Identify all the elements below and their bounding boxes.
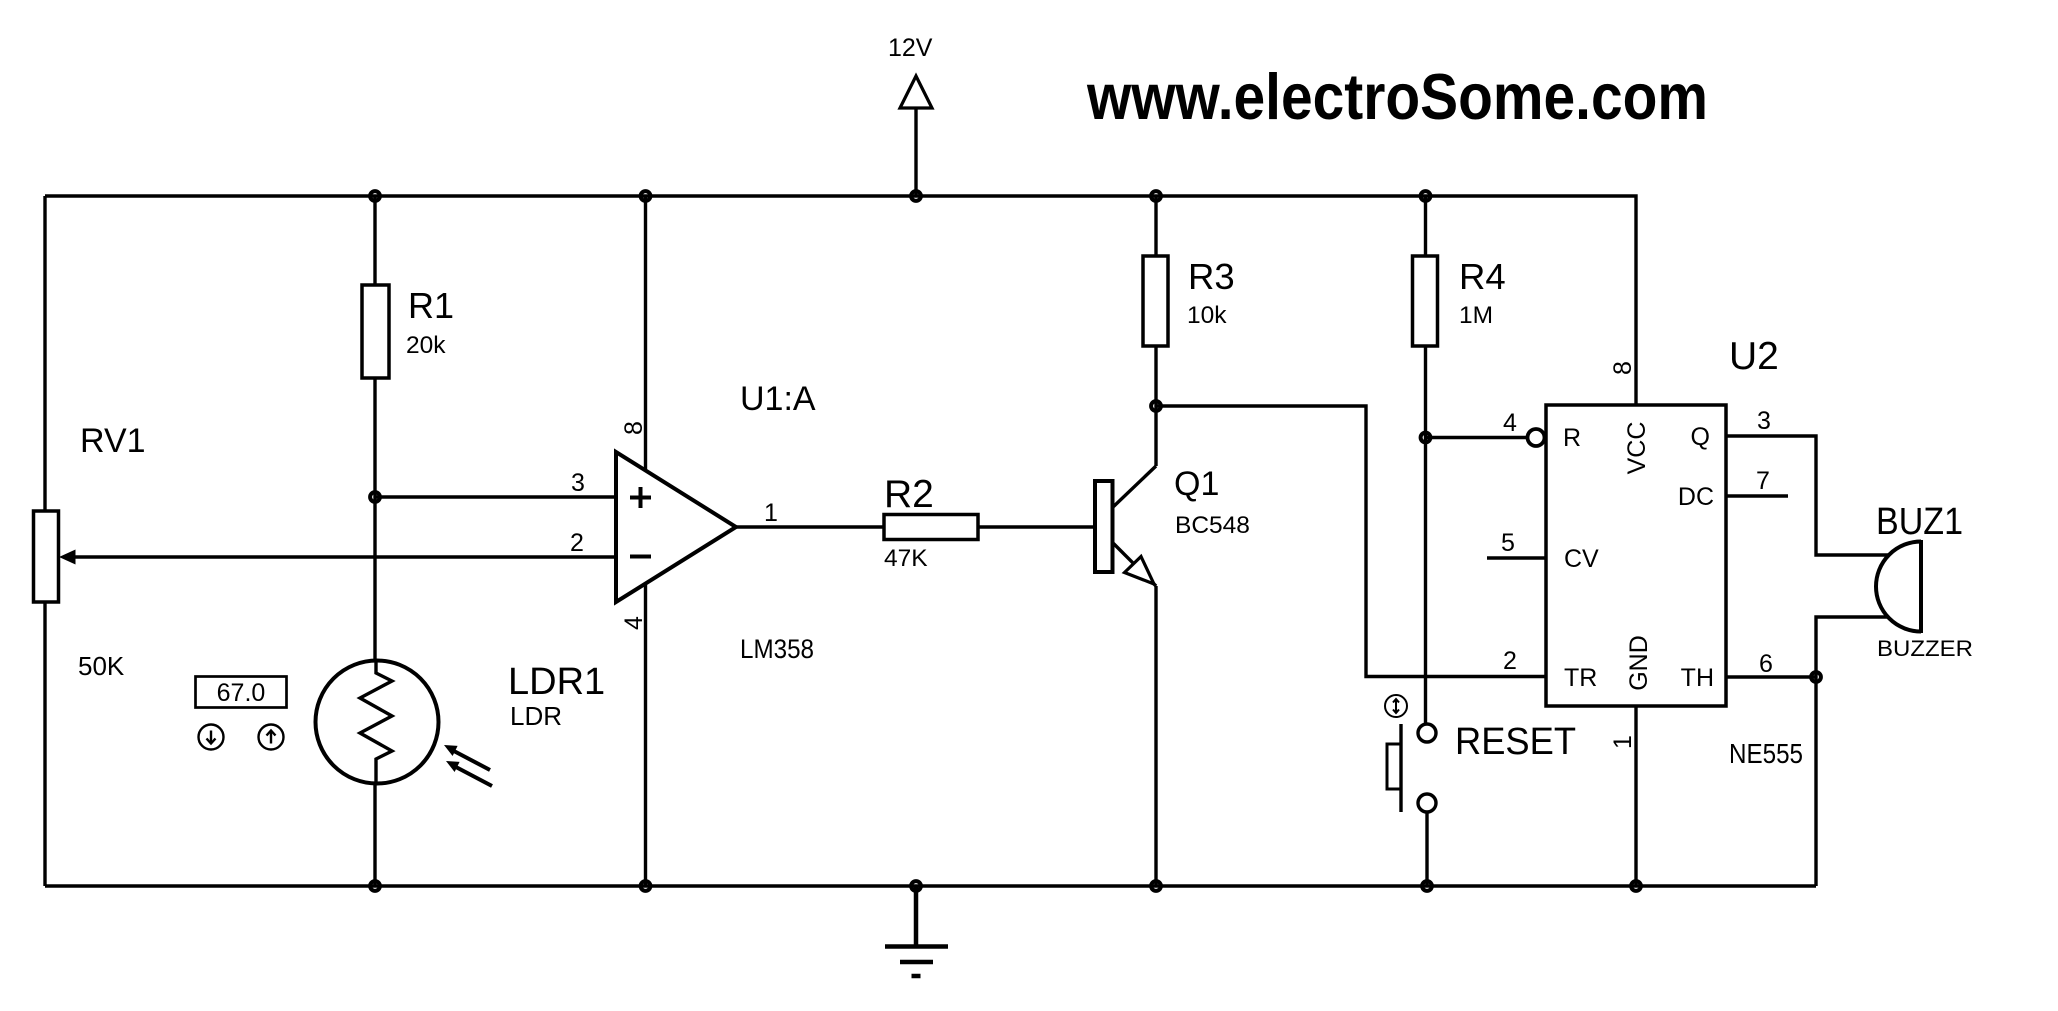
- LDR light arrow 1: [444, 745, 490, 770]
- svg-text:20k: 20k: [406, 332, 446, 359]
- wire 555 DC pin 7 stub: [1726, 494, 1788, 497]
- RESET push button top contact: [1418, 724, 1436, 742]
- transistor Q1 base bar: [1095, 481, 1113, 572]
- junction node bottom rail ground: [911, 881, 921, 891]
- LDR light arrow 2: [446, 761, 492, 786]
- spinner up button: [259, 725, 284, 750]
- svg-text:TH: TH: [1681, 664, 1714, 692]
- svg-text:5: 5: [1501, 529, 1515, 557]
- svg-text:GND: GND: [1625, 635, 1653, 691]
- wire buzzer bottom down to rail: [1816, 617, 1888, 886]
- svg-text:12V: 12V: [888, 34, 933, 62]
- wire 555 CV pin 5 stub: [1487, 556, 1546, 559]
- junction node Q1 collector: [1151, 401, 1161, 411]
- wire R4 top: [1424, 196, 1427, 256]
- svg-text:LM358: LM358: [740, 634, 814, 664]
- resistor R1: [362, 285, 389, 378]
- svg-text:LDR: LDR: [510, 701, 562, 731]
- LDR1 body: [316, 661, 439, 784]
- wire LDR bottom to rail: [373, 784, 376, 886]
- RESET actuator icon: [1385, 695, 1407, 717]
- svg-text:47K: 47K: [884, 545, 928, 572]
- wire Q1 collector up through R3 node: [1154, 346, 1157, 466]
- resistor R4: [1413, 256, 1438, 346]
- svg-text:2: 2: [570, 529, 584, 557]
- wire R1 top: [373, 196, 376, 285]
- Q1 emitter arrow: [1125, 557, 1155, 585]
- svg-text:R3: R3: [1188, 256, 1235, 297]
- wire node to op-amp pin 3: [375, 495, 616, 498]
- RESET push button bottom contact: [1418, 794, 1436, 812]
- svg-text:1: 1: [764, 499, 778, 527]
- junction node bottom rail Q1 emitter: [1151, 881, 1161, 891]
- junction node bottom rail op-amp pin4: [641, 881, 651, 891]
- buzzer BUZ1 body: [1876, 540, 1921, 633]
- svg-text:R4: R4: [1459, 256, 1506, 297]
- svg-text:10k: 10k: [1187, 302, 1227, 329]
- svg-text:8: 8: [620, 421, 648, 435]
- svg-text:NE555: NE555: [1729, 738, 1803, 769]
- svg-text:R1: R1: [408, 285, 454, 326]
- junction node R1/LDR/pin3: [370, 492, 380, 502]
- junction node top rail op-amp pin8: [641, 191, 651, 201]
- op-amp U1:A triangle: [616, 452, 736, 602]
- svg-text:U2: U2: [1729, 335, 1779, 378]
- spinner value box 67.0: [196, 677, 287, 708]
- wire RV1 wiper to op-amp pin 2: [73, 555, 616, 558]
- wire pot bottom to ground rail: [43, 602, 46, 886]
- svg-text:RV1: RV1: [80, 422, 146, 460]
- svg-text:R: R: [1563, 424, 1581, 452]
- RESET push button body: [1387, 744, 1401, 789]
- wire left rail: [43, 196, 46, 511]
- 555 pin 4 inversion bubble: [1528, 429, 1545, 446]
- svg-text:BUZZER: BUZZER: [1877, 636, 1973, 661]
- svg-text:DC: DC: [1678, 483, 1714, 511]
- svg-text:LDR1: LDR1: [508, 661, 605, 703]
- wire op-amp output pin 1 to R2: [736, 525, 884, 528]
- svg-text:R2: R2: [884, 473, 934, 516]
- junction node top rail 12V: [911, 191, 921, 201]
- svg-text:TR: TR: [1564, 664, 1597, 692]
- wire node to 555 pin 4 R: [1426, 436, 1527, 439]
- resistor R3: [1143, 256, 1168, 346]
- wire 555 GND pin 1 to rail: [1634, 706, 1637, 886]
- Q1 collector diagonal: [1112, 466, 1156, 508]
- svg-text:8: 8: [1609, 361, 1637, 375]
- junction node bottom rail LDR: [370, 881, 380, 891]
- 12V power arrow: [914, 78, 917, 196]
- svg-text:3: 3: [571, 469, 585, 497]
- svg-text:7: 7: [1756, 467, 1770, 495]
- junction node bottom rail reset: [1422, 881, 1432, 891]
- junction node TH buzzer: [1811, 672, 1821, 682]
- svg-text:Q: Q: [1691, 423, 1710, 451]
- svg-text:RESET: RESET: [1455, 721, 1576, 763]
- wire R3 top: [1154, 196, 1157, 256]
- op-amp U1:A pin4 wire: [644, 583, 647, 886]
- svg-text:BC548: BC548: [1175, 512, 1250, 539]
- RESET push button actuator bar: [1399, 724, 1402, 812]
- junction node bottom rail 555 GND: [1631, 881, 1641, 891]
- wire R1 bottom to node: [373, 378, 376, 497]
- LDR1 zigzag: [360, 661, 392, 784]
- svg-text:2: 2: [1503, 647, 1517, 675]
- junction node R4 pin4: [1421, 433, 1431, 443]
- svg-text:67.0: 67.0: [217, 679, 266, 707]
- wire reset bottom to rail: [1425, 812, 1428, 886]
- svg-text:1: 1: [1609, 735, 1637, 749]
- resistor R2: [884, 515, 978, 540]
- wire bottom ground rail: [45, 884, 1816, 887]
- svg-text:3: 3: [1757, 407, 1771, 435]
- svg-text:Q1: Q1: [1174, 465, 1219, 503]
- svg-text:CV: CV: [1564, 545, 1599, 573]
- Q1 emitter diagonal: [1112, 542, 1156, 586]
- svg-text:50K: 50K: [78, 651, 125, 681]
- op-amp minus symbol: [630, 555, 651, 559]
- spinner down button: [199, 725, 224, 750]
- junction node top rail R4: [1421, 191, 1431, 201]
- junction node top rail R3: [1151, 191, 1161, 201]
- op-amp U1:A pin8 wire: [644, 196, 647, 471]
- wire Q1 emitter to rail: [1154, 586, 1157, 886]
- potentiometer RV1: [34, 511, 59, 602]
- wire 555 Q pin 3 to buzzer top: [1726, 436, 1888, 555]
- svg-text:U1:A: U1:A: [740, 380, 816, 418]
- svg-text:1M: 1M: [1459, 302, 1493, 329]
- svg-text:6: 6: [1759, 650, 1773, 678]
- svg-text:BUZ1: BUZ1: [1876, 501, 1963, 543]
- wire collector node to 555 TR pin 2: [1156, 406, 1546, 677]
- svg-text:VCC: VCC: [1623, 422, 1651, 475]
- wire node to LDR top: [373, 497, 376, 662]
- svg-text:www.electroSome.com: www.electroSome.com: [1086, 60, 1708, 133]
- wire 555 TH pin 6: [1726, 675, 1816, 678]
- wire R4 bottom through pin4 node to reset button: [1424, 346, 1427, 724]
- RV1 wiper arrow: [59, 550, 76, 565]
- junction node top rail R1: [370, 191, 380, 201]
- svg-text:4: 4: [1503, 409, 1517, 437]
- ground symbol: [885, 886, 948, 976]
- wire top rail VCC: [45, 196, 1636, 405]
- op-amp plus symbol: [630, 487, 651, 508]
- IC U2 NE555 body: [1546, 405, 1726, 706]
- svg-text:4: 4: [620, 616, 648, 630]
- wire R2 to Q1 base: [978, 525, 1095, 528]
